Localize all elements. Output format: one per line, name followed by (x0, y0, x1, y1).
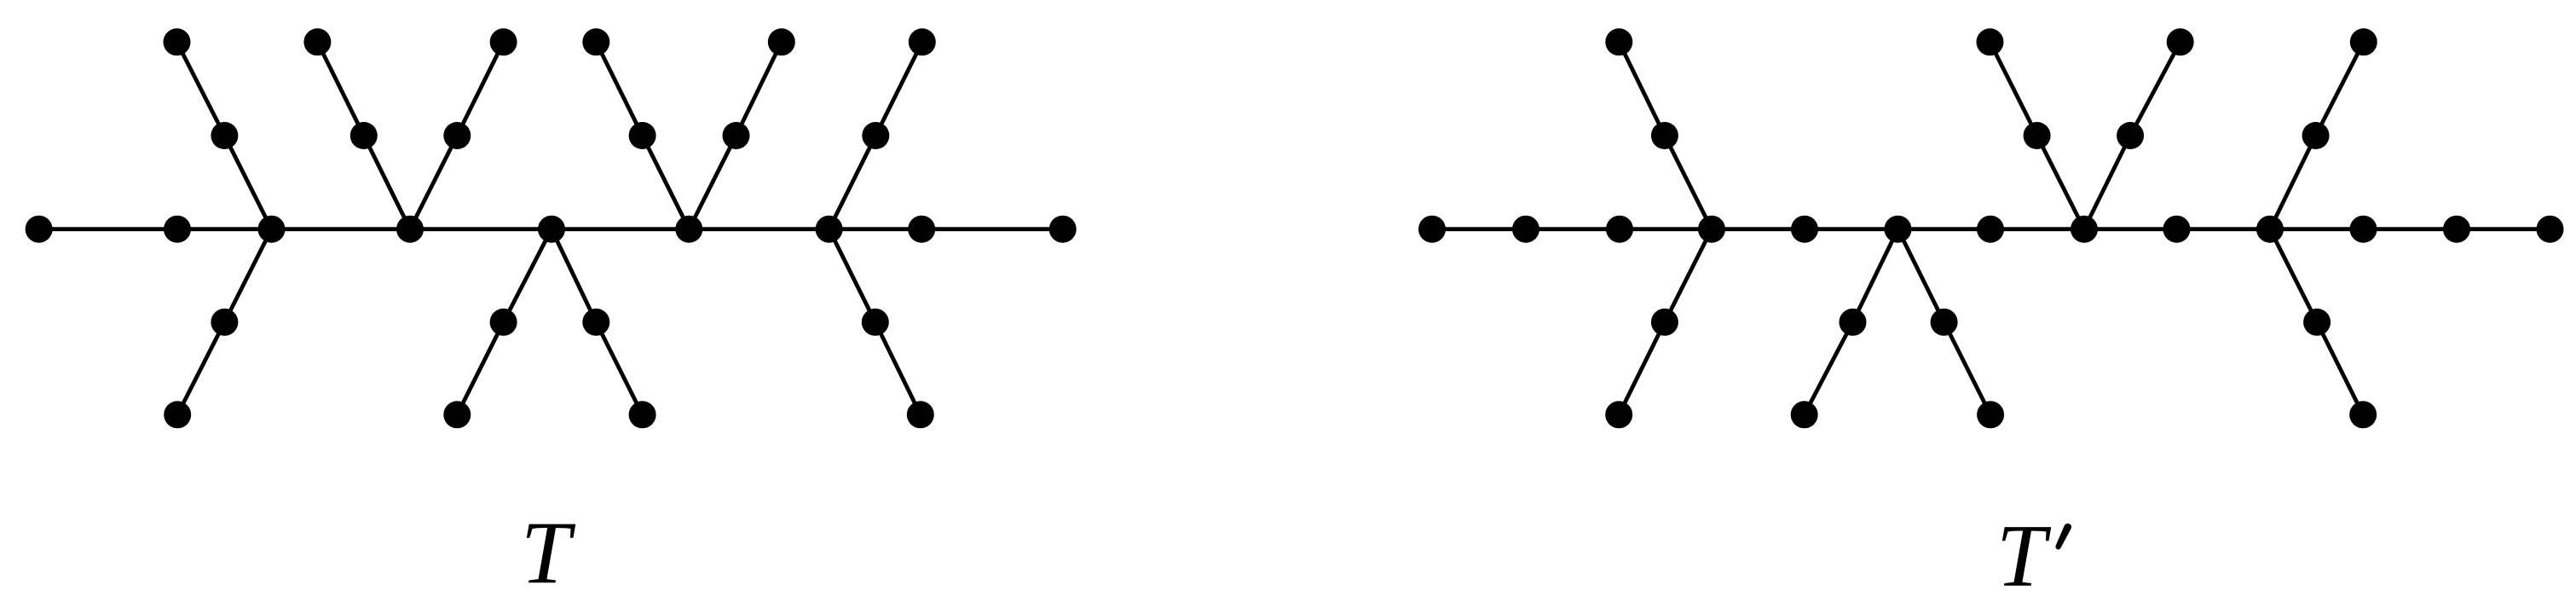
node b10dr2 (leaf) (2349, 401, 2377, 428)
wire edge b2-b3 (1526, 227, 1620, 231)
wire edge b6-b6dl1 (1853, 229, 1898, 322)
wire edge a4-a4ur1 (410, 136, 457, 229)
node b10 (2256, 216, 2284, 243)
wire edge b10-b10ur1 (2270, 136, 2316, 229)
wire edge b6-b6dr1 (1898, 229, 1944, 322)
wire edge b11-b12 (2364, 227, 2458, 231)
wire edge b8ur1-b8ur2 (2130, 42, 2180, 136)
node b1 (1418, 216, 1446, 243)
wire edge a6-a6ur1 (689, 136, 736, 229)
wire edge a7-a8 (829, 227, 922, 231)
node b9 (2163, 216, 2191, 243)
node b4dl1 (1651, 309, 1678, 336)
node a5dr1 (582, 309, 609, 336)
node b6 (1885, 216, 1912, 243)
node b6dl1 (1840, 309, 1867, 336)
node b3 (1606, 216, 1633, 243)
wire edge b4-b4ul1 (1665, 136, 1712, 229)
wire edge a8-a9 (921, 227, 1063, 231)
wire edge b10-b10dr1 (2270, 229, 2317, 322)
wire edge a3-a4 (272, 227, 411, 231)
wire edge a4-a5 (410, 227, 552, 231)
node b4ul1 (1651, 122, 1678, 149)
node a7ur1 (862, 122, 889, 149)
wire edge a5-a5dr1 (552, 229, 596, 322)
node b5 (1791, 216, 1818, 243)
wire edge a3dl1-a3dl2 (177, 322, 224, 415)
wire edge a6-a7 (689, 227, 829, 231)
wire edge a6ul1-a6ul2 (596, 42, 642, 136)
node b8ur1 (2117, 122, 2144, 149)
label prime mark of T&#39; (2055, 524, 2071, 550)
wire edge b8ul1-b8ul2 (1990, 42, 2037, 136)
wire edge a1-a2 (39, 227, 177, 231)
node a3dl2 (leaf) (164, 401, 191, 428)
node b7 (1977, 216, 2004, 243)
wire edge a4-a4ul1 (364, 136, 410, 229)
node b10ur2 (leaf) (2350, 28, 2377, 55)
node a6 (675, 216, 702, 243)
node a5dl2 (leaf) (443, 401, 471, 428)
wire edge b3-b4 (1620, 227, 1712, 231)
node a3dl1 (211, 309, 238, 336)
node a6ur1 (723, 122, 750, 149)
wire edge a7ur1-a7ur2 (875, 42, 922, 136)
node a3ul2 (leaf) (164, 28, 191, 55)
wire edge b6dr1-b6dr2 (1944, 322, 1991, 415)
wire edge b9-b10 (2177, 227, 2271, 231)
node b8ul1 (2024, 122, 2051, 149)
wire edge a5-a6 (552, 227, 689, 231)
wire edge a4ur1-a4ur2 (457, 42, 503, 136)
node a2 (164, 216, 191, 243)
wire edge a7-a7dr1 (829, 229, 875, 322)
node a6ul2 (leaf) (582, 28, 609, 55)
node a4ul1 (350, 122, 378, 149)
wire edge b7-b8 (1990, 227, 2084, 231)
wire edge b8-b8ul1 (2037, 136, 2084, 229)
wire edge a3ul1-a3ul2 (177, 42, 225, 136)
wire edge b10ur1-b10ur2 (2316, 42, 2364, 136)
wire edge b10-b11 (2270, 227, 2364, 231)
wire edge b8-b8ur1 (2084, 136, 2130, 229)
svg-text:T: T (521, 504, 576, 603)
node a6ul1 (629, 122, 656, 149)
node b6dl2 (leaf) (1791, 401, 1818, 428)
node b6dr1 (1931, 309, 1958, 336)
wire edge b12-b13 (2457, 227, 2550, 231)
wire edge b4-b4dl1 (1665, 229, 1712, 322)
node a3ul1 (211, 122, 238, 149)
wire edge a4ul1-a4ul2 (317, 42, 363, 136)
wire edge b8-b9 (2084, 227, 2177, 231)
node b8 (2071, 216, 2098, 243)
wire edge a2-a3 (177, 227, 272, 231)
node b4ul2 (leaf) (1605, 28, 1632, 55)
wire edge b4-b5 (1712, 227, 1805, 231)
wire edge a6-a6ul1 (643, 136, 690, 229)
wire edge a5-a5dl1 (504, 229, 552, 322)
node b10dr1 (2303, 309, 2331, 336)
node b4dl2 (leaf) (1605, 401, 1632, 428)
wire edge b4ul1-b4ul2 (1619, 42, 1665, 136)
node b2 (1512, 216, 1539, 243)
node b6dr2 (leaf) (1977, 401, 2004, 428)
node a7dr1 (862, 309, 889, 336)
node a7dr2 (leaf) (907, 401, 934, 428)
node a9 (1049, 216, 1077, 243)
node a4ur2 (leaf) (490, 28, 517, 55)
wire edge a3-a3ul1 (224, 136, 271, 229)
node a4 (396, 216, 424, 243)
node a7ur2 (leaf) (909, 28, 936, 55)
node a5dr2 (leaf) (629, 401, 656, 428)
wire edge a3-a3dl1 (224, 229, 271, 322)
node b8ur2 (leaf) (2167, 28, 2194, 55)
wire edge a6ur1-a6ur2 (736, 42, 782, 136)
node b10ur1 (2302, 122, 2330, 149)
node a5dl1 (490, 309, 517, 336)
wire edge a5dl1-a5dl2 (457, 322, 503, 415)
node b13 (2537, 216, 2564, 243)
node b8ul2 (leaf) (1977, 28, 2004, 55)
wire edge b6dl1-b6dl2 (1805, 322, 1853, 415)
node a4ur1 (443, 122, 471, 149)
node b11 (2350, 216, 2377, 243)
node a8 (908, 216, 935, 243)
node a6ur2 (leaf) (768, 28, 795, 55)
wire edge a5dr1-a5dr2 (596, 322, 642, 415)
wire edge b4dl1-b4dl2 (1619, 322, 1665, 415)
wire edge b10dr1-b10dr2 (2317, 322, 2363, 415)
wire edge a7-a7ur1 (829, 136, 876, 229)
wire edge b6-b7 (1898, 227, 1991, 231)
node a1 (26, 216, 53, 243)
node a5 (538, 216, 565, 243)
node b4 (1698, 216, 1725, 243)
wire edge a7dr1-a7dr2 (875, 322, 921, 415)
wire edge b5-b6 (1805, 227, 1898, 231)
wire edge b1-b2 (1432, 227, 1526, 231)
node a3 (258, 216, 286, 243)
node b12 (2443, 216, 2470, 243)
node a4ul2 (leaf) (303, 28, 331, 55)
node a7 (816, 216, 843, 243)
svg-text:T: T (1996, 507, 2052, 605)
